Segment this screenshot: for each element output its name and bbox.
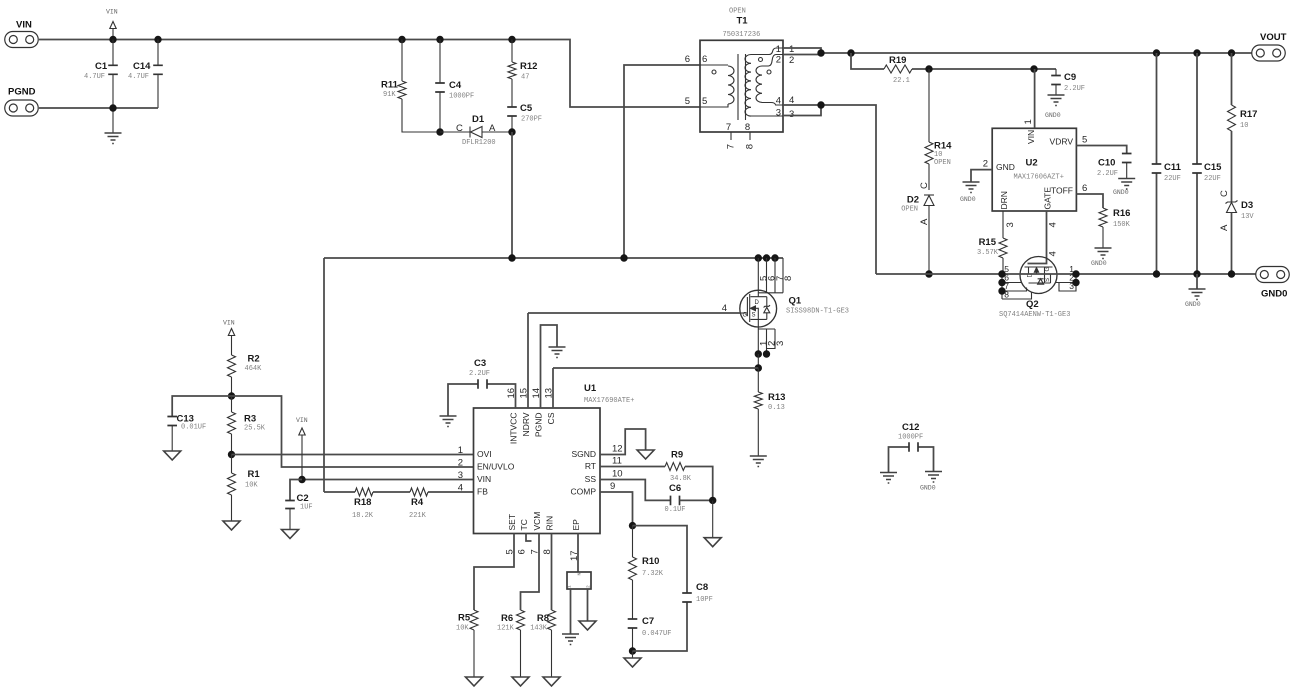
wire EP left lead [570, 589, 572, 634]
svg-text:EP: EP [571, 519, 581, 531]
junction [620, 254, 627, 261]
U1 pin10 SS wire [600, 480, 671, 501]
capacitor C9 [1055, 69, 1057, 95]
resistor R9 [665, 463, 685, 471]
ground GND0 C9 [1048, 95, 1065, 106]
capacitor C1 [112, 40, 114, 134]
svg-text:10K: 10K [245, 482, 258, 490]
svg-text:GATE: GATE [1043, 187, 1053, 210]
wire EN/UVLO [232, 396, 474, 467]
svg-text:4: 4 [776, 96, 781, 107]
capacitor C4 [439, 40, 441, 133]
svg-text:A: A [1219, 224, 1230, 231]
svg-text:3: 3 [458, 470, 463, 481]
wire D1 to drain rail [511, 132, 513, 258]
T1 secondary phase dots [759, 58, 763, 62]
svg-text:1000PF: 1000PF [449, 93, 474, 101]
capacitor C15 [1196, 53, 1198, 274]
svg-text:C12: C12 [902, 422, 919, 433]
svg-text:VDRV: VDRV [1050, 137, 1074, 147]
junction node SW-aux [508, 128, 515, 135]
T1 secondary winding B [756, 55, 783, 106]
svg-text:C9: C9 [1064, 72, 1076, 83]
svg-text:13: 13 [544, 388, 555, 399]
svg-text:0.047UF: 0.047UF [642, 630, 671, 638]
T1 secondary winding A [745, 48, 783, 116]
U1 pin9 COMP wire [600, 492, 633, 526]
junction [755, 364, 762, 371]
resistor R12 [511, 40, 513, 108]
svg-text:R4: R4 [411, 497, 424, 508]
svg-text:EN/UVLO: EN/UVLO [477, 462, 515, 472]
svg-text:U1: U1 [584, 383, 597, 394]
svg-text:A: A [919, 218, 930, 225]
junction [228, 451, 235, 458]
svg-text:10K: 10K [456, 625, 469, 633]
capacitor C7 [628, 619, 638, 628]
svg-text:PGND: PGND [8, 87, 36, 98]
junction [1193, 49, 1200, 56]
svg-text:4: 4 [458, 483, 463, 494]
U1 pin13 CS wire [552, 368, 554, 408]
svg-text:R9: R9 [671, 450, 683, 461]
svg-text:8: 8 [745, 144, 756, 149]
junction [1228, 270, 1235, 277]
svg-text:0.01UF: 0.01UF [181, 424, 206, 432]
svg-text:R15: R15 [979, 237, 997, 248]
svg-text:G: G [743, 313, 748, 319]
junction [1153, 49, 1160, 56]
wire Q1 source to CS [757, 354, 759, 368]
junction [817, 49, 824, 56]
svg-text:2: 2 [458, 458, 463, 469]
svg-text:22UF: 22UF [1204, 175, 1221, 183]
capacitor C14 [157, 40, 159, 109]
capacitor C6 [671, 496, 680, 506]
junction [228, 392, 235, 399]
svg-text:7: 7 [726, 144, 737, 149]
svg-text:10: 10 [612, 469, 623, 480]
svg-text:MAX17606AZT+: MAX17606AZT+ [1014, 174, 1064, 182]
svg-text:221K: 221K [409, 512, 427, 520]
junction [398, 36, 405, 43]
T1 core [738, 54, 746, 120]
power symbol VIN top [112, 29, 114, 40]
capacitor C13 [172, 396, 231, 417]
U1 pin14 PGND wire [541, 325, 558, 408]
T1 pin 8 stub [749, 132, 751, 140]
svg-text:3: 3 [775, 341, 786, 346]
ground C12 left [880, 473, 897, 484]
capacitor C2 [290, 480, 302, 501]
svg-text:C15: C15 [1204, 162, 1222, 173]
connector J-GND0 [1256, 267, 1290, 283]
wire CS [553, 367, 758, 369]
svg-text:13V: 13V [1241, 213, 1254, 221]
T1 primary phase dot [712, 70, 716, 74]
junction [1030, 65, 1037, 72]
svg-text:R8: R8 [537, 613, 549, 624]
IC U2 MAX17606 [992, 128, 1076, 211]
svg-text:C6: C6 [669, 483, 681, 494]
svg-text:7: 7 [726, 122, 731, 133]
svg-text:4: 4 [1048, 251, 1059, 256]
svg-text:SGND: SGND [571, 449, 596, 459]
svg-text:VIN: VIN [106, 9, 118, 16]
svg-text:25.5K: 25.5K [244, 425, 266, 433]
U2 pin4 GATE wire [1028, 211, 1047, 264]
transistor Q1 SISS98DN [755, 254, 762, 261]
wire VIN rail [39, 40, 700, 108]
wire rail GND0 bottom [876, 273, 1256, 275]
svg-text:OPEN: OPEN [934, 159, 951, 167]
svg-text:R5: R5 [458, 613, 471, 624]
svg-text:10PF: 10PF [696, 596, 713, 604]
svg-text:1: 1 [458, 445, 463, 456]
U1 pin11 RT wire [600, 467, 713, 501]
svg-text:C5: C5 [520, 103, 533, 114]
U2 pin2 GND wire [971, 170, 992, 182]
junction [508, 36, 515, 43]
resistor R6 [517, 610, 525, 630]
net-tie EP pad [567, 572, 591, 589]
junction [925, 270, 932, 277]
capacitor C12 [889, 447, 934, 473]
junction [436, 128, 443, 135]
capacitor C5 [511, 116, 513, 132]
svg-text:COMP: COMP [571, 487, 597, 497]
svg-text:10: 10 [934, 151, 942, 159]
resistor R11 [402, 40, 440, 133]
ground R13 [750, 456, 767, 467]
svg-text:VCM: VCM [532, 512, 542, 531]
svg-text:SISS98DN-T1-GE3: SISS98DN-T1-GE3 [786, 308, 849, 316]
Q2 right pin bus [1056, 274, 1077, 291]
power symbol VIN pin3 [301, 435, 303, 480]
resistor R19 [851, 53, 1056, 69]
svg-text:3: 3 [789, 109, 794, 120]
junction [1228, 49, 1235, 56]
resistor R13 [757, 368, 759, 456]
svg-text:GND0: GND0 [1113, 189, 1129, 196]
svg-text:8: 8 [745, 122, 750, 133]
capacitor C10 [1122, 154, 1132, 163]
svg-text:5: 5 [1082, 135, 1087, 146]
svg-text:2: 2 [789, 55, 794, 66]
ground C13 [164, 451, 181, 460]
resistor R4 [410, 488, 428, 496]
svg-text:6: 6 [517, 549, 528, 554]
junction [629, 522, 636, 529]
svg-text:C14: C14 [133, 61, 151, 72]
capacitor C8 [633, 526, 688, 651]
wire T1 pin6 to drain rail [624, 65, 700, 258]
svg-text:8: 8 [1004, 290, 1009, 300]
ground EP right [579, 621, 596, 630]
svg-text:C10: C10 [1098, 158, 1115, 169]
svg-text:121K: 121K [497, 625, 515, 633]
U1 pin7 VCM wire [521, 534, 540, 611]
svg-text:1: 1 [776, 44, 781, 55]
wire FB riser [323, 258, 325, 492]
svg-text:4: 4 [1048, 222, 1059, 227]
svg-text:0.13: 0.13 [768, 404, 785, 412]
svg-text:270PF: 270PF [521, 116, 542, 124]
svg-text:S: S [1045, 278, 1051, 282]
U2 pin6 TOFF wire [1076, 194, 1103, 208]
svg-text:R12: R12 [520, 61, 537, 72]
U1 pin17 EP wire [577, 534, 579, 573]
junction [1193, 270, 1200, 277]
svg-text:Q1: Q1 [789, 296, 802, 307]
wire EP right lead [587, 589, 589, 621]
svg-text:TOFF: TOFF [1051, 185, 1073, 195]
svg-text:DRN: DRN [999, 191, 1009, 209]
svg-text:C: C [919, 182, 930, 189]
svg-text:GND: GND [996, 162, 1015, 172]
svg-text:10: 10 [1240, 122, 1248, 130]
ground GND0 U2 [963, 182, 980, 193]
svg-text:SS: SS [585, 474, 597, 484]
svg-text:4: 4 [722, 303, 727, 314]
ground GND0 C10 [1118, 179, 1135, 190]
svg-text:INTVCC: INTVCC [509, 413, 519, 445]
resistor R14 [928, 69, 930, 190]
IC U1 MAX17690 [474, 408, 601, 534]
svg-text:C1: C1 [95, 61, 108, 72]
svg-text:6: 6 [702, 54, 707, 65]
svg-text:Q2: Q2 [1026, 299, 1039, 310]
svg-text:1: 1 [567, 585, 573, 588]
svg-text:TC: TC [519, 519, 529, 530]
U1 pin12 SGND wire [600, 429, 646, 455]
T1 pin 7 stub [730, 132, 732, 140]
svg-text:D2: D2 [907, 195, 919, 206]
resistor R16 [1099, 208, 1107, 227]
svg-text:N: N [577, 573, 583, 576]
svg-text:GND0: GND0 [1185, 301, 1201, 308]
svg-text:C8: C8 [696, 582, 708, 593]
svg-text:9: 9 [610, 481, 615, 492]
transformer T1 [700, 40, 783, 132]
svg-text:17: 17 [569, 550, 580, 561]
svg-text:1000PF: 1000PF [898, 434, 923, 442]
svg-text:VIN: VIN [477, 474, 491, 484]
U2 pin1 VIN wire [1034, 69, 1036, 128]
diode D2 [924, 194, 934, 196]
resistor R3 [231, 396, 233, 412]
svg-text:VIN: VIN [16, 19, 32, 30]
wire VOUT rail [783, 53, 1252, 55]
svg-text:GND0: GND0 [1045, 112, 1061, 119]
svg-text:GND0: GND0 [1261, 289, 1287, 300]
ground GND0 R16 [1095, 248, 1112, 259]
svg-text:4.7UF: 4.7UF [84, 73, 105, 81]
svg-text:14: 14 [531, 388, 542, 399]
svg-text:SET: SET [507, 514, 517, 531]
svg-text:R14: R14 [934, 141, 952, 152]
svg-text:R13: R13 [768, 392, 785, 403]
svg-text:OPEN: OPEN [729, 8, 746, 16]
ground R10 C7 [632, 651, 634, 658]
svg-text:8: 8 [783, 276, 794, 281]
Q2 left pin bus [1002, 274, 1032, 299]
svg-text:3.57K: 3.57K [977, 249, 999, 257]
connector J-PGND [5, 100, 39, 116]
svg-text:D3: D3 [1241, 200, 1253, 211]
svg-text:C4: C4 [449, 80, 462, 91]
wire Q1 gate NDRV [528, 312, 740, 314]
junction [629, 647, 636, 654]
resistor R18 [355, 488, 373, 496]
svg-text:6: 6 [1082, 183, 1087, 194]
ground GND0 C15 [1196, 274, 1198, 289]
svg-text:C11: C11 [1164, 162, 1182, 173]
svg-text:GND0: GND0 [1091, 260, 1107, 267]
svg-text:R16: R16 [1113, 208, 1130, 219]
U1 pin6 TC stub [526, 534, 532, 542]
ground R1 [223, 521, 240, 530]
svg-text:VIN: VIN [223, 320, 235, 327]
svg-text:18.2K: 18.2K [352, 512, 374, 520]
power symbol VIN divider [231, 336, 233, 356]
svg-text:16: 16 [506, 388, 517, 399]
svg-text:PGND: PGND [534, 413, 544, 438]
svg-text:OPEN: OPEN [901, 206, 918, 214]
svg-text:3: 3 [1005, 222, 1016, 227]
svg-text:143K: 143K [530, 625, 548, 633]
svg-text:2.2UF: 2.2UF [1064, 85, 1085, 93]
svg-text:22.1: 22.1 [893, 77, 910, 85]
ground GND0 C12 [925, 472, 942, 483]
svg-text:2: 2 [983, 159, 988, 170]
svg-text:GND0: GND0 [920, 485, 936, 492]
svg-text:11: 11 [612, 456, 622, 467]
junction [298, 476, 305, 483]
junction [925, 65, 932, 72]
svg-text:G: G [1045, 267, 1051, 272]
svg-text:1: 1 [789, 44, 794, 55]
svg-text:CS: CS [546, 412, 556, 424]
resistor R8 [548, 610, 556, 630]
svg-text:34.8K: 34.8K [670, 475, 692, 483]
resistor R10 [632, 526, 634, 619]
svg-text:0.1UF: 0.1UF [665, 506, 686, 514]
svg-text:D: D [755, 300, 760, 306]
svg-text:2: 2 [586, 585, 592, 588]
junction [436, 36, 443, 43]
svg-text:4.7UF: 4.7UF [128, 73, 149, 81]
svg-text:8: 8 [542, 549, 553, 554]
svg-text:MAX17690ATE+: MAX17690ATE+ [584, 397, 634, 405]
svg-text:3: 3 [1069, 281, 1074, 291]
svg-text:DFLR1200: DFLR1200 [462, 139, 496, 147]
U2 pin5 VDRV wire [1076, 146, 1126, 154]
svg-text:T1: T1 [737, 16, 749, 27]
wire T1 pin3/pin4 [783, 105, 876, 274]
svg-text:22UF: 22UF [1164, 175, 1181, 183]
ground C2 [282, 530, 299, 539]
ground SGND [637, 450, 654, 459]
ground R5 [466, 677, 483, 686]
svg-text:VOUT: VOUT [1260, 32, 1287, 43]
ground R9 C6 [712, 500, 714, 537]
svg-text:VIN: VIN [1026, 130, 1036, 144]
svg-text:RT: RT [585, 461, 596, 471]
connector J-VIN [5, 32, 39, 48]
resistor R2 [228, 355, 236, 377]
svg-text:R17: R17 [1240, 109, 1257, 120]
capacitor C11 [1156, 53, 1158, 274]
junction [508, 254, 515, 261]
svg-text:SQ7414AENW-T1-GE3: SQ7414AENW-T1-GE3 [999, 311, 1070, 319]
wire drain rail [324, 257, 783, 259]
svg-text:R19: R19 [889, 55, 906, 66]
svg-text:R3: R3 [244, 414, 256, 425]
wire OVI [232, 454, 474, 456]
diode D3 zener [1226, 201, 1238, 204]
svg-text:C: C [1219, 190, 1230, 197]
ground R6 [512, 677, 529, 686]
svg-text:R10: R10 [642, 556, 659, 567]
capacitor C3 INTVCC [448, 384, 516, 416]
wire T1 pin1 [783, 48, 821, 53]
svg-text:D1: D1 [472, 114, 485, 125]
ground EP [562, 634, 579, 645]
junction [1153, 270, 1160, 277]
resistor R1 [231, 455, 233, 474]
junction [109, 104, 116, 111]
svg-text:47: 47 [521, 74, 529, 82]
connector J-VOUT [1252, 45, 1286, 61]
svg-text:U2: U2 [1026, 158, 1038, 169]
U2 pin3 DRN wire [1002, 211, 1004, 238]
svg-text:2.2UF: 2.2UF [1097, 170, 1118, 178]
junction [154, 36, 161, 43]
transistor Q2 SQ7414AENW [1020, 257, 1057, 294]
svg-text:FB: FB [477, 487, 488, 497]
svg-text:1: 1 [1023, 119, 1034, 124]
svg-text:5: 5 [505, 549, 516, 554]
svg-text:2.2UF: 2.2UF [469, 370, 490, 378]
wire FB with R18 R4 [324, 491, 474, 493]
svg-text:1UF: 1UF [300, 504, 313, 512]
svg-text:7: 7 [530, 549, 541, 554]
ground C3 [440, 416, 457, 427]
svg-text:750317236: 750317236 [723, 31, 761, 39]
resistor R15 [999, 238, 1007, 258]
svg-text:3: 3 [776, 108, 781, 119]
svg-text:R11: R11 [381, 80, 399, 91]
svg-text:A: A [489, 123, 496, 134]
junction [709, 497, 716, 504]
ground R8 [543, 677, 560, 686]
ground [105, 133, 122, 144]
svg-text:C3: C3 [474, 358, 486, 369]
resistor R5 [470, 610, 478, 630]
svg-text:NDRV: NDRV [521, 412, 531, 436]
svg-text:150K: 150K [1113, 221, 1131, 229]
U1 pin5 SET wire [474, 534, 514, 611]
wire PGND to C1/C14 [39, 107, 113, 109]
svg-text:C2: C2 [297, 493, 309, 504]
svg-text:C: C [456, 123, 463, 134]
svg-text:R1: R1 [248, 469, 261, 480]
svg-text:6: 6 [685, 54, 690, 65]
svg-text:7.32K: 7.32K [642, 570, 664, 578]
svg-text:S: S [752, 313, 756, 319]
resistor R17 [1231, 53, 1233, 202]
